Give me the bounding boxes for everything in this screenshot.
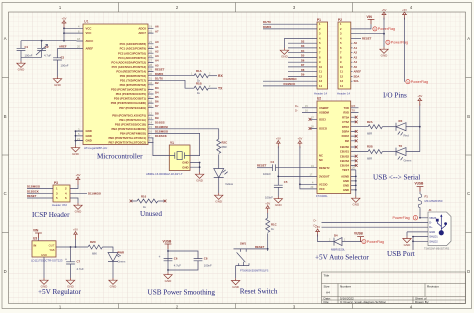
svg-text:AGND: AGND xyxy=(341,175,349,179)
svg-text:A1: A1 xyxy=(354,46,358,50)
wire R2A to LED RX xyxy=(382,126,396,128)
svg-text:C2: C2 xyxy=(45,45,49,49)
Y1 GND pins xyxy=(182,161,188,170)
ground under U2 xyxy=(352,196,360,207)
svg-text:A1: A1 xyxy=(155,45,159,49)
svg-text:TX: TX xyxy=(399,144,403,148)
wire VIN to regulator xyxy=(38,238,40,241)
svg-text:Green: Green xyxy=(404,159,412,163)
svg-text:PD6 (PCINT22/OC0A/AIN0): PD6 (PCINT22/OC0A/AIN0) xyxy=(111,101,146,105)
svg-text:Number: Number xyxy=(340,285,351,289)
reg GND drop xyxy=(43,257,45,278)
svg-text:PD2 (INT0/PCINT18): PD2 (INT0/PCINT18) xyxy=(120,83,146,87)
resistor R2B xyxy=(367,145,382,161)
ground under C7 xyxy=(66,278,74,289)
svg-text:D8: D8 xyxy=(301,68,305,72)
svg-text:RX: RX xyxy=(218,74,223,78)
power flag on VIN xyxy=(373,27,395,31)
svg-text:A4: A4 xyxy=(326,291,330,295)
svg-text:GND: GND xyxy=(86,129,92,133)
svg-text:CBUS2: CBUS2 xyxy=(340,154,350,158)
no-connect X right xyxy=(164,200,167,203)
capacitor C8 xyxy=(194,256,212,267)
svg-text:A0: A0 xyxy=(155,40,159,44)
U1 left pin stubs xyxy=(77,28,84,140)
svg-text:LD1117S50CTR-SOT223: LD1117S50CTR-SOT223 xyxy=(31,258,63,262)
svg-text:PD0 (RXD/PCINT16): PD0 (RXD/PCINT16) xyxy=(120,74,146,78)
svg-text:Title: Title xyxy=(324,274,330,278)
wire LED TX to +5V rail xyxy=(406,104,420,152)
svg-text:Reset Switch: Reset Switch xyxy=(240,288,278,296)
svg-text:GND: GND xyxy=(343,179,349,183)
svg-text:R1B: R1B xyxy=(196,81,202,85)
ground under C3 xyxy=(53,77,61,88)
svg-text:PB0 (PCINT0/CLKO/ICP1): PB0 (PCINT0/CLKO/ICP1) xyxy=(112,113,146,117)
ground under U1 xyxy=(71,146,79,157)
svg-text:P3: P3 xyxy=(54,181,58,185)
wire LED to gnd xyxy=(112,262,114,279)
svg-text:R2B: R2B xyxy=(367,145,373,149)
power port VUSB xyxy=(354,231,364,241)
svg-text:D6: D6 xyxy=(301,58,305,62)
ground under Y1 xyxy=(195,172,203,183)
ground under U3 xyxy=(40,278,48,289)
svg-text:VCC: VCC xyxy=(319,187,325,191)
svg-text:VUSB: VUSB xyxy=(354,231,364,235)
wire D0/RX to R1A xyxy=(154,75,195,77)
capacitor C5 xyxy=(265,180,288,199)
ground under powerflag xyxy=(383,42,385,47)
svg-text:I/O Pins: I/O Pins xyxy=(383,92,407,100)
U2 OSCI OSCO stubs with nc xyxy=(311,119,317,128)
ground under PWR LED xyxy=(109,278,117,289)
svg-text:OSCO: OSCO xyxy=(319,127,327,131)
svg-text:A5: A5 xyxy=(354,65,358,69)
svg-text:D8: D8 xyxy=(155,112,159,116)
wire LED to ground xyxy=(218,178,220,194)
svg-text:U3: U3 xyxy=(33,237,37,241)
svg-text:MF-MSMF050: MF-MSMF050 xyxy=(425,199,443,203)
svg-text:PD5 (PCINT21/OC0B/T1): PD5 (PCINT21/OC0B/T1) xyxy=(114,97,146,101)
capacitor C6 xyxy=(159,255,182,268)
svg-text:Microcontroller: Microcontroller xyxy=(97,153,143,161)
svg-text:PD3 (PCINT19/OC2B/INT1): PD3 (PCINT19/OC2B/INT1) xyxy=(111,88,146,92)
U2 left pin names xyxy=(319,106,330,191)
svg-text:A2: A2 xyxy=(155,50,159,54)
ground under smoothing xyxy=(167,270,169,273)
svg-text:D4: D4 xyxy=(301,49,305,53)
svg-text:3V3OUT: 3V3OUT xyxy=(319,175,330,179)
svg-text:Red: Red xyxy=(404,134,410,138)
diode D4 MBR0520L xyxy=(329,234,346,252)
svg-text:A2: A2 xyxy=(354,51,358,55)
SECTION TITLES xyxy=(32,92,420,297)
capacitor C3 xyxy=(53,55,69,76)
svg-text:SHLD2: SHLD2 xyxy=(429,239,438,243)
svg-text:CTS#: CTS# xyxy=(342,120,349,124)
U2 handshake stubs xyxy=(351,117,356,165)
svg-text:GND: GND xyxy=(41,253,47,257)
svg-text:GND: GND xyxy=(343,188,349,192)
svg-text:D9: D9 xyxy=(301,73,305,77)
wire to R10 xyxy=(131,200,137,202)
svg-text:R2A: R2A xyxy=(367,120,373,124)
svg-text:100nF: 100nF xyxy=(204,264,212,268)
ICSP MOSI wire xyxy=(70,192,87,194)
svg-text:+5V Auto Selector: +5V Auto Selector xyxy=(315,254,369,262)
svg-text:D4: D4 xyxy=(155,90,159,94)
svg-text:J1: J1 xyxy=(429,208,433,212)
svg-text:D+: D+ xyxy=(429,225,433,229)
svg-text:Y1: Y1 xyxy=(170,141,174,145)
ICSP gnd wire xyxy=(70,198,78,203)
svg-text:D2: D2 xyxy=(155,81,159,85)
svg-text:AREF: AREF xyxy=(86,47,94,51)
svg-text:VIN: VIN xyxy=(33,229,39,233)
svg-text:PB3 (PCINT3/OC2A/MOSI): PB3 (PCINT3/OC2A/MOSI) xyxy=(112,127,147,131)
+5V port xyxy=(315,225,320,237)
U1 left pin numbers xyxy=(77,25,80,141)
svg-text:14: 14 xyxy=(340,84,343,88)
svg-text:A4: A4 xyxy=(155,59,159,63)
svg-text:+: + xyxy=(159,255,161,259)
svg-text:OSCI: OSCI xyxy=(319,117,326,121)
svg-text:P1: P1 xyxy=(317,18,321,22)
resistor R1A xyxy=(191,69,211,83)
svg-text:SCL: SCL xyxy=(354,79,360,83)
svg-text:100nF: 100nF xyxy=(265,195,273,199)
svg-text:NC: NC xyxy=(319,158,323,162)
svg-text:PD4 (PCINT20/XCK/T0): PD4 (PCINT20/XCK/T0) xyxy=(116,92,146,96)
resistor R10 xyxy=(137,195,158,209)
svg-text:GND: GND xyxy=(182,165,188,169)
svg-text:12: 12 xyxy=(319,74,322,78)
svg-text:RI#: RI# xyxy=(345,139,350,143)
connector P1 Header 14 xyxy=(314,18,328,96)
svg-text:+: + xyxy=(65,257,67,261)
wire R2B to LED TX xyxy=(382,151,396,153)
svg-text:USBDM: USBDM xyxy=(319,111,330,115)
svg-text:VCC: VCC xyxy=(86,31,92,35)
LED RX red xyxy=(396,119,409,138)
P1 wires left xyxy=(263,24,317,86)
svg-text:C:\Users\..\main-diagram.SchDo: C:\Users\..\main-diagram.SchDoc xyxy=(340,300,387,304)
fuse F1 MF-MSMF050 xyxy=(418,194,443,208)
svg-text:PB4 (PCINT4/MISO): PB4 (PCINT4/MISO) xyxy=(120,132,146,136)
svg-text:10: 10 xyxy=(340,65,343,69)
wire XTAL left xyxy=(153,138,164,156)
U1 right pin numbers xyxy=(149,25,152,143)
no-connect X left xyxy=(130,200,133,203)
svg-text:ABMG-16.000MHZ-18-D2Y-T: ABMG-16.000MHZ-18-D2Y-T xyxy=(146,172,183,176)
+5V power for U1 xyxy=(62,16,67,28)
svg-text:D3: D3 xyxy=(301,44,305,48)
svg-text:D12/MISO: D12/MISO xyxy=(27,185,41,189)
capacitor C1 xyxy=(17,41,33,58)
svg-text:FT232RL: FT232RL xyxy=(316,194,328,198)
resistor R2A xyxy=(367,120,382,136)
ground under J1 xyxy=(403,236,411,247)
svg-text:RX: RX xyxy=(399,119,403,123)
svg-text:SHLD1: SHLD1 xyxy=(429,235,438,239)
svg-text:ICSP Header: ICSP Header xyxy=(32,211,70,219)
svg-text:TSW02AF-MB-05TXRS: TSW02AF-MB-05TXRS xyxy=(424,247,450,250)
regulator U3 LD1117S50CTR xyxy=(31,237,63,263)
ground under ICSP xyxy=(74,203,82,214)
wire D4 to VUSB junction xyxy=(342,241,362,243)
svg-text:D9: D9 xyxy=(155,116,159,120)
svg-text:P2: P2 xyxy=(338,18,342,22)
svg-text:A: A xyxy=(4,36,7,41)
svg-text:USB Power Smoothing: USB Power Smoothing xyxy=(148,288,216,296)
svg-text:R2D: R2D xyxy=(90,240,96,244)
svg-text:4.7uF: 4.7uF xyxy=(174,264,181,268)
ground under C1 xyxy=(17,61,25,72)
svg-text:10: 10 xyxy=(319,65,322,69)
svg-text:GND: GND xyxy=(86,139,92,143)
svg-text:CBUS4: CBUS4 xyxy=(340,164,350,168)
svg-text:MBR0520L: MBR0520L xyxy=(331,247,345,251)
svg-text:68K: 68K xyxy=(92,252,97,256)
USB trident icon xyxy=(436,214,447,235)
svg-text:D5: D5 xyxy=(155,95,159,99)
wire R1C to junction xyxy=(234,233,268,251)
svg-text:A: A xyxy=(467,36,470,41)
svg-text:AREF: AREF xyxy=(354,70,362,74)
svg-text:GND: GND xyxy=(429,230,435,234)
svg-text:PC2 (ADC2/PCINT10): PC2 (ADC2/PCINT10) xyxy=(118,51,146,55)
svg-text:USB Port: USB Port xyxy=(387,250,415,258)
svg-text:TXD: TXD xyxy=(344,106,349,110)
svg-text:C: C xyxy=(467,191,470,196)
svg-text:IN: IN xyxy=(34,243,37,247)
svg-text:C: C xyxy=(4,191,7,196)
svg-text:C7: C7 xyxy=(77,260,81,264)
svg-text:A0: A0 xyxy=(354,41,358,45)
svg-text:PC3 (ADC3/PCINT11): PC3 (ADC3/PCINT11) xyxy=(118,56,146,60)
wire R1A to RX label xyxy=(208,75,217,77)
switch SW1 xyxy=(236,242,269,279)
power port VIN xyxy=(367,15,375,25)
svg-text:R1C: R1C xyxy=(271,223,277,227)
svg-text:PWR: PWR xyxy=(118,251,125,255)
wire +5V to 3V3OUT junction xyxy=(278,146,317,185)
wire VUSB to fuse xyxy=(419,192,421,194)
svg-text:14: 14 xyxy=(319,84,322,88)
svg-text:D13/SCK: D13/SCK xyxy=(155,134,167,138)
+3V3 power with long drop xyxy=(402,8,407,20)
wire VIN to P2 pin2 xyxy=(351,24,371,29)
svg-text:C5: C5 xyxy=(284,180,288,184)
svg-text:RX: RX xyxy=(352,104,356,108)
U2 right TXD RXD wires xyxy=(351,108,359,113)
ground on P1 pin4 xyxy=(280,48,288,59)
svg-text:NC: NC xyxy=(319,154,323,158)
svg-text:D-: D- xyxy=(429,221,432,225)
resistor R2C xyxy=(217,139,227,153)
svg-text:R1A: R1A xyxy=(196,69,202,73)
svg-text:A3: A3 xyxy=(155,54,159,58)
svg-text:PC4 (ADC4/SDA/PCINT12): PC4 (ADC4/SDA/PCINT12) xyxy=(111,61,146,65)
P2 right wires A0-A5 xyxy=(351,43,353,81)
svg-text:PD7 (PCINT23/AIN1): PD7 (PCINT23/AIN1) xyxy=(119,106,146,110)
U1 ground pins joined xyxy=(76,131,84,145)
U1 right net labels xyxy=(155,25,169,139)
connector P3 Header 3X2 xyxy=(52,181,70,207)
svg-text:D0/RX: D0/RX xyxy=(263,25,271,29)
svg-text:A5: A5 xyxy=(155,63,159,67)
svg-text:C3: C3 xyxy=(61,55,65,59)
svg-text:ADC7: ADC7 xyxy=(138,31,146,35)
ground under LED xyxy=(215,193,223,204)
svg-text:R10: R10 xyxy=(141,195,147,199)
svg-text:13: 13 xyxy=(340,79,343,83)
power flag on VUSB xyxy=(362,240,384,244)
svg-text:USB <--> Serial: USB <--> Serial xyxy=(373,174,420,182)
crystal symbol inside Y1 xyxy=(164,152,197,160)
svg-text:Revision: Revision xyxy=(427,285,439,289)
wire +5V to D4 xyxy=(318,235,334,242)
power flag on VBUS xyxy=(393,216,418,221)
svg-text:GND: GND xyxy=(343,183,349,187)
svg-text:PB1 (PCINT1/OC1A): PB1 (PCINT1/OC1A) xyxy=(119,118,146,122)
+5V above rail xyxy=(75,239,77,247)
svg-text:OUT: OUT xyxy=(49,243,55,247)
wire OUT to rail xyxy=(56,246,88,248)
wire R2D to LED xyxy=(102,247,113,253)
wire AREF to C3 xyxy=(58,48,77,57)
svg-text:D7: D7 xyxy=(301,63,305,67)
wire fuse to VBUS xyxy=(420,208,428,217)
wire D1/TX step down to R1B xyxy=(154,80,195,88)
svg-text:100nF: 100nF xyxy=(263,172,271,176)
ground under C5 xyxy=(274,197,282,208)
wire CBUS1 to R2B xyxy=(351,151,368,153)
power port VUSB xyxy=(163,239,173,249)
U1 right pin names xyxy=(108,26,146,144)
crystal Y1 box xyxy=(146,141,190,176)
svg-text:ADC6: ADC6 xyxy=(138,26,146,30)
wire LED RX to +5V rail xyxy=(406,126,420,128)
svg-text:D3: D3 xyxy=(155,86,159,90)
svg-text:D: D xyxy=(4,269,7,274)
+5V on P2 pin3 xyxy=(382,8,387,20)
svg-text:100nF: 100nF xyxy=(61,64,69,68)
svg-text:Yellow: Yellow xyxy=(225,182,234,186)
svg-text:PD1 (TXD/PCINT17): PD1 (TXD/PCINT17) xyxy=(120,78,146,82)
svg-text:D13/SCK: D13/SCK xyxy=(27,189,39,193)
svg-text:PowerFlag: PowerFlag xyxy=(393,216,410,220)
+5V above R1C xyxy=(265,202,270,214)
svg-text:DCD#: DCD# xyxy=(342,134,350,138)
svg-text:VUSB: VUSB xyxy=(163,239,173,243)
svg-text:RXD: RXD xyxy=(343,111,349,115)
svg-text:C1: C1 xyxy=(25,45,29,49)
wire C1 C2 common to ground xyxy=(21,57,42,61)
wire P2 pin4 RESET xyxy=(351,37,361,39)
svg-text:SW1: SW1 xyxy=(240,242,247,246)
svg-text:C8: C8 xyxy=(204,256,208,260)
svg-text:CBUS1: CBUS1 xyxy=(340,150,350,154)
resistor R1C xyxy=(266,218,277,232)
svg-text:68R: 68R xyxy=(367,157,372,161)
resistor R1B xyxy=(194,81,211,95)
svg-text:Unused: Unused xyxy=(140,210,162,218)
svg-text:TEST: TEST xyxy=(342,168,349,172)
power port VUSB top xyxy=(415,181,425,191)
svg-text:RESET: RESET xyxy=(255,245,265,249)
LED PWR green xyxy=(108,251,126,264)
wire C4 to RESET# pin xyxy=(276,167,318,169)
svg-text:4.7uF: 4.7uF xyxy=(44,54,51,58)
svg-text:TX: TX xyxy=(352,109,356,113)
power flag lower xyxy=(406,80,428,84)
svg-text:TAB: TAB xyxy=(49,248,54,252)
svg-text:ATmega328P-AU: ATmega328P-AU xyxy=(84,146,107,150)
ICSP +5V xyxy=(70,185,78,189)
wire R1B to TX label xyxy=(208,87,217,89)
IC U1 ATmega328P-AU body xyxy=(83,20,148,150)
USB connector J1 xyxy=(424,208,451,251)
svg-text:B: B xyxy=(467,114,470,119)
svg-text:RTS#: RTS# xyxy=(342,115,349,119)
svg-text:PC0 (ADC0/PCINT8): PC0 (ADC0/PCINT8) xyxy=(120,42,146,46)
svg-text:D-: D- xyxy=(314,219,317,223)
svg-text:GND: GND xyxy=(86,134,92,138)
svg-text:DTR#: DTR# xyxy=(342,125,350,129)
svg-text:RESET: RESET xyxy=(257,164,267,168)
svg-text:Drawn By:: Drawn By: xyxy=(415,300,429,304)
svg-text:D10/SS: D10/SS xyxy=(155,121,165,125)
svg-text:PB7 (PCINT7/XTAL2/TOSC2): PB7 (PCINT7/XTAL2/TOSC2) xyxy=(108,141,146,145)
svg-text:D: D xyxy=(467,269,470,274)
svg-text:VBUS: VBUS xyxy=(429,216,436,220)
svg-text:D4: D4 xyxy=(334,234,338,238)
IC U2 FT232RL body xyxy=(316,97,351,199)
wire PB to LED chain corner xyxy=(154,129,219,139)
svg-text:68R: 68R xyxy=(367,132,372,136)
wire VUSB down and tee xyxy=(168,249,198,270)
svg-text:Size: Size xyxy=(324,285,330,289)
connector P2 Header 14 xyxy=(337,18,351,96)
U2 left stubs D+ D- xyxy=(302,108,317,113)
svg-text:PC1 (ADC1/PCINT9): PC1 (ADC1/PCINT9) xyxy=(120,47,146,51)
svg-text:D+: D+ xyxy=(314,223,318,227)
wire to X right xyxy=(158,200,165,202)
svg-text:D2: D2 xyxy=(301,39,305,43)
power port VIN xyxy=(33,229,42,238)
svg-text:D-: D- xyxy=(295,109,298,113)
U1 left pin names xyxy=(86,26,94,142)
svg-text:U2: U2 xyxy=(317,97,321,101)
svg-text:PB6 (PCINT6/XTAL1/TOSC1): PB6 (PCINT6/XTAL1/TOSC1) xyxy=(108,136,146,140)
svg-text:PB2 (PCINT2/SS/OC1B): PB2 (PCINT2/SS/OC1B) xyxy=(115,122,146,126)
svg-text:D13/SCK: D13/SCK xyxy=(284,82,296,86)
svg-text:D+: D+ xyxy=(295,104,299,108)
svg-text:PTS645SK50SMTR92LFS: PTS645SK50SMTR92LFS xyxy=(240,269,269,272)
+5V over C5 xyxy=(276,137,281,149)
svg-text:D7: D7 xyxy=(155,104,159,108)
svg-text:VCC: VCC xyxy=(86,26,92,30)
svg-text:68R: 68R xyxy=(222,145,227,149)
svg-text:File:: File: xyxy=(324,300,330,304)
wire R2C to LED xyxy=(218,154,220,168)
P1 net labels xyxy=(301,39,305,76)
svg-text:CBUS3: CBUS3 xyxy=(340,159,350,163)
svg-text:Header 3X2: Header 3X2 xyxy=(52,203,67,207)
svg-text:AVCC: AVCC xyxy=(86,39,94,43)
U1 right pin stubs xyxy=(148,28,154,142)
